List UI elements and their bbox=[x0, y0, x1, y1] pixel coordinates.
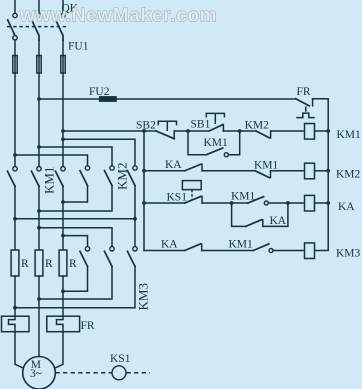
svg-text:KM1: KM1 bbox=[229, 238, 254, 250]
svg-text:KM3: KM3 bbox=[136, 283, 151, 310]
svg-text:SB1: SB1 bbox=[191, 118, 211, 130]
svg-text:KA: KA bbox=[161, 239, 178, 251]
svg-text:KM1: KM1 bbox=[42, 167, 57, 194]
svg-text:R: R bbox=[21, 258, 29, 270]
svg-text:SB2: SB2 bbox=[136, 120, 156, 132]
svg-text:FU1: FU1 bbox=[68, 41, 89, 53]
svg-text:KA: KA bbox=[165, 159, 182, 171]
svg-text:KM1: KM1 bbox=[204, 137, 229, 149]
svg-text:KS1: KS1 bbox=[167, 192, 188, 204]
svg-text:KA: KA bbox=[270, 215, 287, 227]
svg-text:KA: KA bbox=[338, 201, 355, 213]
svg-text:KM2: KM2 bbox=[245, 120, 270, 132]
svg-text:KM2: KM2 bbox=[115, 163, 130, 190]
svg-text:FR: FR bbox=[297, 86, 311, 98]
svg-text:R: R bbox=[69, 258, 77, 270]
svg-text:www.NewMaker.com: www.NewMaker.com bbox=[19, 6, 217, 27]
svg-text:FU2: FU2 bbox=[89, 86, 110, 98]
svg-text:R: R bbox=[45, 258, 53, 270]
svg-text:KM1: KM1 bbox=[337, 129, 362, 141]
svg-text:KM3: KM3 bbox=[336, 247, 361, 259]
svg-text:3~: 3~ bbox=[30, 368, 42, 380]
svg-text:FR: FR bbox=[81, 320, 95, 332]
svg-text:KM2: KM2 bbox=[336, 168, 361, 180]
svg-text:KM1: KM1 bbox=[231, 190, 256, 202]
svg-text:KM1: KM1 bbox=[254, 159, 279, 171]
svg-text:KS1: KS1 bbox=[110, 353, 131, 365]
